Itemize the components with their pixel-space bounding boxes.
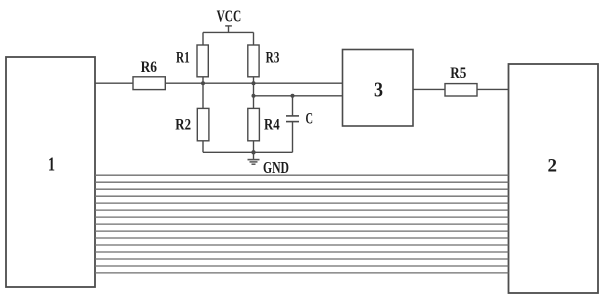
bus wire 12 — [95, 251, 509, 253]
block 2 — [509, 64, 599, 293]
wire: R4 bottom lead to ground — [253, 141, 255, 160]
bus wire 4 — [95, 195, 509, 197]
svg-text:R6: R6 — [141, 59, 157, 76]
bus wire 2 — [95, 181, 509, 183]
resistor R3 — [248, 45, 280, 77]
junction node at R1/R2 on main wire — [201, 81, 205, 85]
block 3 — [343, 50, 414, 127]
VCC terminal — [217, 7, 242, 33]
svg-text:R5: R5 — [450, 65, 466, 82]
junction node at R4/ground rail — [251, 150, 255, 154]
bus wire 15 — [95, 272, 509, 274]
wire: R1 bottom to main wire and down to R2 — [202, 77, 204, 109]
junction node at R3 on main wire — [252, 81, 256, 85]
resistor R5 — [445, 65, 477, 96]
block 1 — [6, 57, 95, 287]
bus wire 8 — [95, 223, 509, 225]
bus wire 13 — [95, 258, 509, 260]
wire: bottom ground rail R2 to C — [203, 151, 293, 153]
wire: rail down to R1 top — [202, 32, 204, 45]
wire: R6 to block3 (main node wire) — [165, 82, 342, 84]
svg-text:R2: R2 — [175, 116, 191, 133]
svg-text:3: 3 — [374, 78, 383, 102]
bus wire 1 — [95, 174, 509, 176]
ground — [248, 158, 290, 177]
svg-text:2: 2 — [548, 156, 558, 177]
bus wire 10 — [95, 237, 509, 239]
bus wire 9 — [95, 230, 509, 232]
svg-text:VCC: VCC — [217, 7, 242, 26]
bus wire 11 — [95, 244, 509, 246]
resistor R6 — [133, 59, 165, 89]
wire: VCC top rail — [203, 31, 254, 33]
svg-text:R1: R1 — [176, 50, 190, 67]
wire: rail down to R3 top — [253, 32, 255, 45]
resistor R4 — [248, 108, 280, 140]
capacitor C — [286, 96, 313, 153]
wire: R3 bottom through main wire down to R4 — [253, 77, 255, 109]
wire: tap node to block3 (second wire) — [254, 95, 343, 97]
svg-text:R3: R3 — [266, 50, 280, 67]
svg-text:1: 1 — [48, 154, 55, 176]
junction node at R4 tap — [252, 94, 256, 98]
resistor R1 — [176, 45, 208, 77]
wire: R5 to block2 — [477, 88, 509, 90]
bus wire 14 — [95, 265, 509, 267]
bus wire 6 — [95, 209, 509, 211]
resistor R2 — [175, 108, 209, 140]
bus wire 5 — [95, 202, 509, 204]
svg-text:C: C — [306, 111, 314, 128]
wire: block3 output — [413, 88, 445, 90]
junction node at capacitor tap — [291, 94, 295, 98]
svg-text:GND: GND — [263, 158, 289, 177]
wire: R2 bottom lead — [202, 141, 204, 153]
bus wire 3 — [95, 188, 509, 190]
bus wire 7 — [95, 216, 509, 218]
wire: block1 to R6 — [95, 82, 133, 84]
svg-text:R4: R4 — [264, 116, 280, 133]
